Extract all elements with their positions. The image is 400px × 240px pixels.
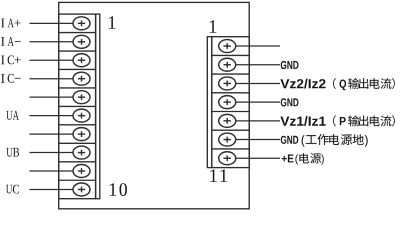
wire to J1-3	[30, 59, 74, 61]
pin number 1 (right block top)	[210, 20, 217, 33]
net label GND (pin 14)	[281, 98, 299, 106]
net label UC	[6, 185, 19, 194]
wire to J1-6	[30, 115, 74, 117]
net label Vz1/Iz1 (P output current, pin 15)	[280, 116, 325, 126]
terminal J1-5 screw	[73, 91, 90, 104]
terminal J1-2 screw	[73, 35, 90, 48]
wire to J1-10	[30, 188, 74, 190]
terminal J1-3 screw	[73, 54, 90, 67]
wire from J2-13	[236, 82, 280, 84]
wire from J2-12	[236, 64, 280, 66]
net label UA	[6, 111, 19, 120]
wire from J2-11	[236, 45, 280, 47]
wire from J2-16	[236, 139, 280, 141]
wire to J1-4	[30, 78, 74, 80]
wire to J1-2	[30, 41, 74, 43]
wire from J2-17	[236, 157, 280, 159]
net label IC+	[1, 56, 21, 65]
terminal J2-13 screw	[219, 77, 236, 90]
wire from J2-14	[236, 101, 280, 103]
terminal J2-16 screw	[219, 133, 236, 146]
wire to J1-5	[30, 96, 74, 98]
net label UB	[6, 148, 19, 157]
pin number 10 (left block bottom)	[110, 183, 117, 196]
terminal block J1 (left, pins 1-10) body	[59, 14, 100, 199]
pin number 1 (left block top)	[109, 16, 116, 29]
wire from J2-15	[236, 120, 280, 122]
wire to J1-7	[30, 133, 74, 135]
net label +E power (pin 17)	[282, 155, 294, 163]
terminal J1-9 screw	[73, 165, 90, 178]
terminal J1-10 screw	[73, 183, 90, 196]
terminal J1-7 screw	[73, 128, 90, 141]
wire to J1-9	[30, 170, 74, 172]
net label IC−	[1, 74, 21, 83]
wire to J1-1	[30, 22, 74, 24]
pin number 11 (right block bottom)	[210, 169, 217, 182]
net label Vz2/Iz2 (Q output current, pin 13)	[280, 79, 325, 89]
device box outline	[59, 2, 250, 208]
net label IA−	[1, 37, 21, 46]
terminal J2-12 screw	[219, 58, 236, 71]
terminal block J2 (right, pins 11-17) body	[207, 37, 249, 168]
terminal J2-11 screw	[219, 40, 236, 53]
terminal J1-1 screw	[73, 17, 90, 30]
terminal J1-6 screw	[73, 109, 90, 122]
terminal J2-17 screw	[219, 152, 236, 165]
net label GND working-power-ground (pin 16)	[281, 136, 299, 144]
net label GND (pin 12)	[281, 61, 299, 69]
terminal J2-15 screw	[219, 114, 236, 127]
net label IA+	[1, 19, 21, 28]
terminal J1-4 screw	[73, 72, 90, 85]
terminal J2-14 screw	[219, 96, 236, 109]
wire to J1-8	[30, 152, 74, 154]
terminal J1-8 screw	[73, 146, 90, 159]
